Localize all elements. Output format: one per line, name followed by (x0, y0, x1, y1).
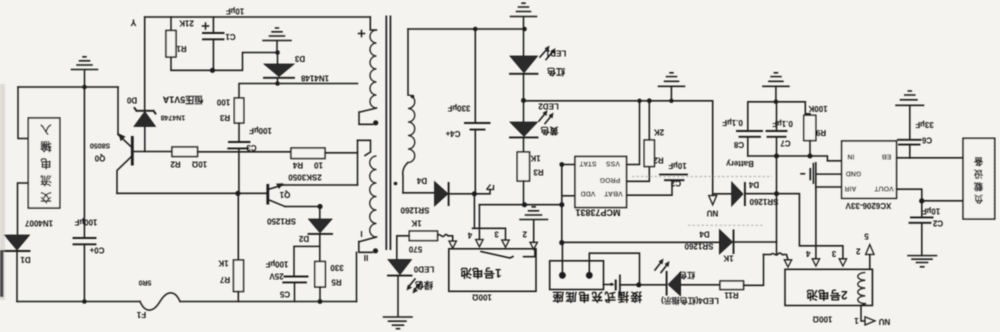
node rail-R5b (522, 202, 527, 207)
svg-text:D2: D2 (298, 234, 309, 243)
wire VBAT pin to C2 (627, 181, 673, 196)
wire R1-C1 bottom (171, 53, 278, 71)
svg-text:NU: NU (707, 209, 719, 218)
wire VIN pin (816, 186, 842, 188)
svg-text:R4: R4 (292, 161, 303, 170)
resistor R7 (720, 281, 744, 290)
node junction at G1 (82, 85, 87, 90)
rail y100.8 to right (524, 100, 713, 102)
resistor R6 (409, 231, 437, 241)
svg-text:XC6206-33V: XC6206-33V (845, 201, 891, 210)
svg-text:红色: 红色 (547, 67, 565, 78)
svg-text:负: 负 (973, 193, 983, 205)
plus mark C1 (203, 23, 209, 29)
svg-text:330: 330 (330, 263, 344, 272)
ground G8 below C5b (908, 256, 937, 267)
svg-text:设: 设 (973, 168, 983, 180)
box2 terminal 1 (559, 272, 566, 279)
svg-text:100K: 100K (808, 104, 827, 113)
Q1 collector wire y206.5 (285, 206, 320, 208)
base wire y151.5 (132, 151, 172, 153)
svg-text:C2: C2 (670, 179, 681, 188)
svg-text:C5: C5 (279, 290, 290, 299)
svg-text:R1: R1 (176, 44, 187, 53)
AC input box (28, 118, 60, 208)
Q1 emitter wire (283, 184, 358, 186)
wire horizontal y87 (18, 86, 118, 88)
secondary winding top lead (407, 29, 409, 95)
LED4 arrows (655, 261, 668, 273)
svg-text:SR1260: SR1260 (400, 206, 429, 215)
wire B1 to LED4 (620, 284, 667, 286)
wire B2 down to pin (815, 189, 817, 258)
node C7 wire (774, 154, 779, 159)
resistor R9 (804, 115, 816, 140)
rail y204.7 (479, 204, 561, 206)
svg-text:5R0: 5R0 (138, 279, 151, 286)
svg-text:红色: 红色 (679, 271, 695, 281)
svg-text:D0: D0 (126, 96, 137, 105)
transistor Q0 emitter wire (117, 87, 119, 134)
node C0 bottom rail (82, 299, 87, 304)
svg-text:AIR: AIR (844, 185, 856, 192)
wire jog to pin3a (473, 228, 506, 240)
svg-text:C6: C6 (921, 136, 932, 145)
secondary top rail y29 (408, 28, 525, 30)
transformer winding II coil (370, 156, 377, 237)
svg-text:100µF: 100µF (265, 260, 288, 269)
svg-text:LED1: LED1 (545, 49, 566, 58)
svg-text:3: 3 (831, 249, 836, 258)
svg-text:C8: C8 (733, 140, 744, 149)
node R8 rail (647, 98, 652, 103)
capacitor C8 (737, 131, 762, 137)
svg-text:3: 3 (494, 230, 499, 239)
battery pack box3 (785, 269, 872, 305)
svg-text:C1: C1 (225, 32, 236, 41)
svg-text:SR1250: SR1250 (267, 217, 296, 226)
svg-text:10µF: 10µF (226, 7, 245, 16)
svg-text:1K: 1K (218, 259, 228, 268)
node VOUT (919, 198, 924, 203)
node rail right (559, 202, 564, 207)
wire C0 vertical (83, 87, 85, 302)
wire STAT pin (562, 164, 575, 166)
svg-text:S8050: S8050 (90, 142, 110, 149)
LED0 arrows (408, 279, 421, 291)
svg-text:100Ω: 100Ω (472, 293, 492, 302)
svg-text:载: 载 (973, 180, 983, 192)
svg-text:100: 100 (216, 98, 230, 107)
resistor R11 (315, 262, 326, 288)
svg-text:D3: D3 (294, 54, 305, 63)
wire rail down x479.4 (478, 205, 480, 240)
resistor R4 (291, 148, 325, 159)
svg-text:10: 10 (314, 161, 323, 170)
svg-text:VBAT: VBAT (604, 190, 623, 197)
svg-text:LED2: LED2 (538, 102, 559, 111)
ground G1 top-left (72, 57, 98, 87)
collector wire y193.3 (117, 192, 267, 194)
svg-text:F1: F1 (136, 310, 146, 319)
node VSS riser rail (637, 99, 641, 103)
wire AC box to D1 (18, 183, 29, 234)
secondary phase dot (394, 182, 398, 186)
svg-text:SR1260: SR1260 (749, 197, 778, 206)
connector pin P3a (502, 240, 509, 247)
svg-text:4: 4 (806, 249, 811, 258)
svg-text:入: 入 (40, 123, 52, 136)
wire Y vertical to D0 (144, 17, 146, 111)
ground G10 battery1 (520, 207, 548, 243)
wire y156.5 to IN (748, 156, 842, 161)
winding I bottom bracket (359, 108, 377, 124)
svg-text:VOUT: VOUT (874, 185, 894, 192)
resistor R10 (237, 193, 239, 260)
transformer core (386, 16, 390, 251)
battery pack box1 (449, 249, 536, 291)
svg-text:25V: 25V (269, 272, 284, 281)
transistor Q0 base bar (131, 136, 134, 166)
wire to D6 (713, 193, 732, 195)
svg-text:II: II (364, 253, 368, 262)
svg-text:R3: R3 (533, 168, 544, 177)
node G4 rail (669, 99, 673, 103)
svg-text:D1: D1 (20, 255, 31, 264)
capacitor C3 (228, 142, 249, 148)
diode D4 (435, 182, 449, 207)
winding II riser to bottom rail (356, 252, 358, 301)
svg-text:电: 电 (40, 157, 52, 171)
diode D6 (732, 182, 743, 206)
svg-text:1N4748: 1N4748 (161, 114, 186, 121)
scan artifact dashed line upper (632, 176, 772, 178)
LED1 arrows (540, 48, 554, 60)
connector pin P1c (784, 260, 791, 267)
winding I terminal dot (373, 120, 378, 125)
LED0 (388, 260, 412, 275)
connector pin P2c (812, 259, 819, 266)
scan artifact left edge bar (0, 250, 4, 297)
node D2 top (317, 204, 322, 209)
connector pin P1a (449, 241, 456, 248)
svg-text:21K: 21K (179, 19, 194, 28)
connector pin P2a (476, 240, 483, 247)
node R11 bottom (318, 299, 323, 304)
svg-text:1K: 1K (411, 219, 421, 228)
svg-text:Y: Y (130, 18, 136, 28)
svg-text:1号电池: 1号电池 (460, 266, 501, 280)
secondary coil (408, 95, 415, 163)
svg-text:输: 输 (40, 140, 52, 154)
battery cell B1 (610, 283, 613, 286)
fuse F1 wavy (140, 293, 180, 310)
svg-text:VDD: VDD (581, 190, 596, 197)
resistor R3 (234, 98, 244, 123)
wire terminal1 up (561, 243, 563, 272)
svg-text:10µF: 10µF (922, 207, 941, 216)
node R10 top (235, 191, 240, 196)
transistor Q0 collector diagonal (117, 157, 132, 194)
capacitor C6 (898, 140, 921, 145)
svg-text:33µF: 33µF (915, 120, 934, 129)
capacitor C1 (212, 17, 214, 70)
svg-text:GND: GND (846, 170, 862, 177)
svg-text:1N4007: 1N4007 (24, 219, 53, 228)
svg-text:5: 5 (864, 232, 869, 241)
wire D5 row (562, 241, 720, 243)
ground G4 on rail1 (659, 73, 685, 101)
wire VSS pin to riser (627, 101, 640, 165)
svg-text:STAT: STAT (579, 160, 597, 167)
capacitor C7 (776, 102, 778, 156)
battery holder box2 (550, 261, 604, 290)
scan artifact dashed line lower (688, 224, 763, 226)
svg-text:黄色: 黄色 (540, 126, 558, 137)
wire x780 down (776, 156, 778, 255)
connector pin P3c (839, 259, 846, 266)
transistor Q1 base bar (266, 184, 269, 205)
svg-text:R9: R9 (815, 128, 826, 137)
minus mark B2 (801, 173, 805, 175)
diode D5 (719, 230, 732, 255)
box3 bottom pin1 (861, 304, 865, 321)
svg-text:交: 交 (40, 191, 52, 205)
resistor R8 (644, 140, 654, 167)
secondary bottom hook (403, 163, 408, 193)
svg-text:C7: C7 (780, 139, 791, 148)
svg-text:330µF: 330µF (447, 104, 470, 113)
node main output (472, 191, 477, 196)
LED1 to LED2 wire (523, 74, 525, 101)
wire R6 right squiggle to pin (438, 234, 453, 241)
test point arrow output (474, 190, 490, 194)
transistor Q1 collector diagonal (268, 200, 285, 207)
diode D3 (264, 64, 294, 77)
svg-text:接插式充电底座: 接插式充电底座 (551, 290, 642, 304)
svg-text:10µF: 10µF (668, 161, 687, 170)
wire secondary to D4 (403, 192, 435, 194)
resistor R1 (170, 17, 172, 70)
wire PROG pin (627, 167, 650, 182)
svg-text:2SK3050: 2SK3050 (288, 173, 322, 182)
node D3 top (275, 50, 280, 55)
svg-text:R5: R5 (331, 278, 342, 287)
capacitor C5a branch (294, 246, 320, 276)
diode D1 (5, 235, 30, 250)
svg-text:LED4(红色指示): LED4(红色指示) (661, 296, 719, 306)
resistor R2 (172, 147, 198, 157)
node STAT (559, 162, 564, 167)
node D3 bottom (275, 81, 280, 86)
wire VOUT to load box (922, 200, 963, 202)
svg-text:100µF: 100µF (74, 218, 97, 227)
IC U1 MCP73831 box (575, 157, 627, 208)
pin5 arrow up (869, 255, 871, 270)
transistor Q1 emitter diagonal with arrow (268, 185, 283, 190)
IC U2 box (842, 141, 897, 198)
wire D4 node down (473, 194, 475, 229)
transformer primary winding I coil (370, 30, 376, 108)
zener D2 (319, 207, 321, 220)
resistor R5b below LED2 (523, 137, 525, 152)
svg-text:SR1260: SR1260 (684, 242, 713, 251)
svg-text:570: 570 (408, 245, 422, 254)
svg-text:MCP73831: MCP73831 (575, 208, 620, 218)
svg-text:绿色: 绿色 (415, 280, 433, 291)
svg-text:C0+: C0+ (89, 246, 104, 255)
LED4 (666, 271, 668, 296)
svg-text:2: 2 (522, 230, 527, 239)
ground G3 above LED1 (511, 3, 537, 29)
svg-text:2K: 2K (654, 128, 664, 137)
zener D0 (134, 112, 156, 127)
svg-text:IN: IN (848, 153, 855, 160)
node C1 junction (210, 68, 215, 73)
connector pin P4a (530, 242, 537, 249)
wire STAT riser (561, 165, 563, 205)
svg-text:R2: R2 (653, 156, 664, 165)
capacitor C2 (660, 175, 687, 181)
svg-text:1K: 1K (723, 254, 733, 263)
transistor Q0 emitter diagonal with arrow (118, 135, 132, 148)
svg-text:D4: D4 (699, 230, 710, 239)
node D6 C7 (774, 191, 779, 196)
connector arrow FU1 (709, 196, 717, 205)
svg-text:Q1: Q1 (279, 190, 290, 199)
load box (963, 138, 995, 219)
secondary phase dot top (411, 95, 415, 99)
svg-text:2号电池: 2号电池 (806, 288, 847, 302)
box2 terminal 2 (586, 272, 593, 279)
svg-text:R7: R7 (219, 275, 230, 284)
svg-text:Q0: Q0 (94, 154, 105, 163)
svg-text:备: 备 (973, 155, 984, 167)
svg-text:1K: 1K (530, 154, 540, 163)
wire left drop to AC box (18, 87, 28, 139)
svg-text:D4: D4 (748, 180, 759, 189)
wire squiggle to pin1c (764, 253, 789, 260)
transformer primary winding I top lead (370, 17, 376, 30)
ground G5 on rail2 (763, 73, 789, 102)
wire y83.5 (239, 84, 358, 99)
node C4 top (473, 27, 478, 32)
node D5 rail (559, 240, 564, 245)
svg-text:NU: NU (879, 317, 891, 326)
rail2 top right (748, 102, 810, 131)
top rail y17 (145, 16, 371, 18)
svg-text:100Ω: 100Ω (812, 315, 832, 324)
ground G2 above D3 (263, 28, 291, 53)
scan artifact left gray band (0, 84, 5, 300)
wire D5 rail down (561, 205, 563, 243)
svg-text:10Ω: 10Ω (191, 160, 207, 169)
wire terminal2 loop (589, 253, 639, 285)
wire D1 to bottom rail (16, 251, 18, 302)
rail1 right corner down (712, 101, 714, 196)
LED2 arrows (539, 113, 552, 124)
svg-text:EB: EB (882, 153, 892, 160)
svg-text:0.1µF: 0.1µF (722, 118, 743, 127)
svg-text:1N4148: 1N4148 (300, 74, 329, 83)
svg-text:R11: R11 (724, 291, 739, 300)
battery B2 cell (809, 168, 811, 180)
node G5 (774, 100, 779, 105)
wire R6 left to LED0 (397, 236, 410, 260)
svg-text:恒压5V1A: 恒压5V1A (162, 95, 203, 106)
winding II terminal dot (373, 248, 378, 253)
svg-text:R3: R3 (219, 113, 230, 122)
node LED rail top (522, 27, 527, 32)
phase plus mark (359, 31, 365, 37)
capacitor C0 (74, 238, 96, 244)
winding II bottom bracket (359, 237, 377, 252)
svg-text:C3: C3 (246, 143, 257, 152)
LED2 (523, 101, 525, 122)
wire VOUT (897, 189, 922, 201)
svg-text:PROG: PROG (599, 176, 620, 183)
wire VDD pin (562, 195, 575, 197)
wire D6 jog to pin3c (777, 194, 843, 259)
svg-text:2: 2 (856, 247, 861, 256)
box1 switch diagonal (481, 249, 535, 258)
svg-text:4: 4 (467, 231, 472, 240)
svg-text:1: 1 (854, 316, 859, 325)
node LED rail mid (521, 98, 526, 103)
node R9 wire (808, 154, 813, 159)
wire riser x357.5 (357, 140, 359, 185)
ground G6 above C6 (896, 91, 924, 139)
svg-text:D4: D4 (416, 176, 427, 185)
svg-text:C4+: C4+ (445, 129, 460, 138)
box3 coil (858, 273, 865, 304)
svg-text:0.1µF: 0.1µF (772, 119, 793, 128)
capacitor C5b (921, 201, 923, 217)
LED1 (523, 29, 525, 56)
svg-text:VSS: VSS (606, 160, 620, 167)
node B1 LED4 (636, 282, 641, 287)
svg-text:C2: C2 (932, 218, 943, 227)
svg-text:I: I (360, 229, 362, 238)
capacitor C4 (474, 29, 476, 194)
svg-text:流: 流 (40, 174, 52, 188)
svg-text:100µF: 100µF (249, 126, 272, 135)
svg-text:Battery: Battery (726, 159, 754, 168)
svg-text:LED0: LED0 (413, 265, 434, 274)
wire GND pin (816, 173, 842, 175)
wire EN to load (897, 157, 964, 159)
ground G9 below LED0 (384, 317, 413, 329)
svg-text:R2: R2 (170, 160, 181, 169)
bottom rail (17, 301, 357, 303)
transformer winding II top bracket (358, 140, 371, 155)
